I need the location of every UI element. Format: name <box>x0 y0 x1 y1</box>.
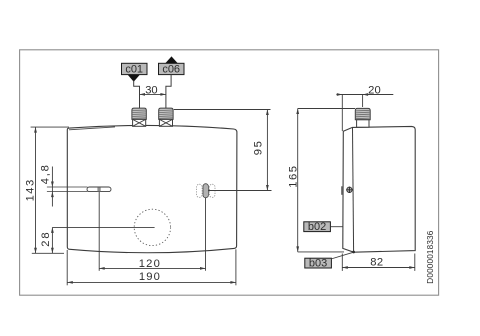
svg-text:120: 120 <box>139 258 160 270</box>
svg-text:28: 28 <box>40 232 52 246</box>
arrow marker above c06 (flow out) <box>165 56 177 63</box>
dimension 30 (pipe spacing) <box>140 84 166 96</box>
fitting left union nut (box with X) <box>133 119 146 126</box>
svg-text:20: 20 <box>368 84 381 96</box>
leader line c06 to right pipe <box>166 75 171 109</box>
leader line b02 to front face <box>330 226 343 228</box>
leader line c01 to left pipe <box>134 81 140 109</box>
cable slot seen from side <box>341 186 343 195</box>
junction dot at bottom front corner <box>352 251 355 254</box>
screw on side seam <box>346 187 352 193</box>
svg-text:143: 143 <box>25 180 37 202</box>
border frame <box>20 50 439 295</box>
svg-text:4,8: 4,8 <box>39 165 51 184</box>
cable gland slot (front view left) <box>87 187 111 192</box>
dimension 143 (height, left) <box>25 127 69 253</box>
svg-text:b02: b02 <box>308 221 326 233</box>
front view body <box>67 125 237 252</box>
label b02 <box>304 221 331 233</box>
svg-text:165: 165 <box>287 166 299 188</box>
svg-text:30: 30 <box>145 84 157 96</box>
dimension 28 (circle centre to bottom) <box>40 227 155 253</box>
dimension 190 (overall width) <box>67 249 236 285</box>
dimension 95 (pipe top to element centre) <box>174 110 272 191</box>
dimension 120 (gland to element) <box>99 192 205 271</box>
side fitting (threaded pipe) <box>355 108 370 127</box>
dimension 20 (front face to pipe centre) <box>336 84 393 131</box>
arrow marker under c01 (flow in) <box>128 75 140 82</box>
heating element flange (front view right) <box>197 184 216 198</box>
leader line b03 to bottom corner <box>331 252 353 259</box>
fitting right (front view, threaded pipe) <box>159 108 173 119</box>
dimension 165 (side height) <box>287 109 355 252</box>
label b03 <box>305 258 332 270</box>
label c06 <box>159 63 185 75</box>
side view body <box>343 126 415 252</box>
fitting right union nut (box with X) <box>159 119 172 126</box>
dimension 4,8 (slot height) <box>39 165 87 206</box>
svg-text:c01: c01 <box>125 64 143 76</box>
dimension 82 (depth) <box>342 254 415 271</box>
svg-text:190: 190 <box>139 271 160 283</box>
svg-text:b03: b03 <box>309 258 327 270</box>
svg-text:82: 82 <box>370 257 383 269</box>
fitting left (front view, threaded pipe) <box>132 108 146 119</box>
svg-text:D0000018336: D0000018336 <box>426 230 435 283</box>
svg-text:95: 95 <box>252 141 264 155</box>
document number <box>426 230 435 283</box>
svg-text:c06: c06 <box>162 64 180 76</box>
label c01 <box>122 63 148 75</box>
dashed circle (blanking plug) <box>134 209 170 245</box>
